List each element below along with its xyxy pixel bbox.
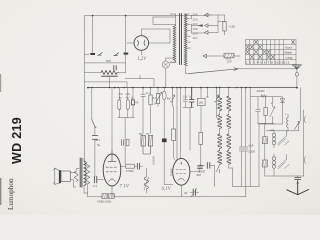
resistor R16 — [265, 97, 267, 108]
table X marks — [246, 40, 295, 59]
bus junction dots — [87, 15, 298, 89]
AGC arrow D2 — [214, 88, 218, 106]
switch S3 arrow — [295, 122, 300, 130]
wire: barretter center tap — [109, 76, 111, 87]
svg-text:5000: 5000 — [249, 150, 256, 154]
svg-text:1,2V: 1,2V — [137, 57, 147, 62]
svg-text:110: 110 — [193, 36, 198, 40]
wire: lamp leads — [166, 58, 176, 88]
capacitor C2 500pF — [114, 66, 116, 71]
wire: long vertical x177 — [176, 88, 178, 160]
wire: C16 C17 join — [183, 108, 194, 151]
wire: drop x=125.6 — [125, 16, 127, 73]
wire: IFT2 row link — [220, 148, 229, 150]
wire: selector right bus — [212, 15, 219, 33]
svg-text:1µ: 1µ — [189, 95, 193, 99]
svg-text:S: S — [95, 125, 97, 129]
svg-text:0,5: 0,5 — [153, 96, 157, 100]
transformer T1 primary winding — [173, 26, 176, 61]
svg-text:0,2A: 0,2A — [171, 60, 177, 64]
capacitor C21 — [239, 147, 243, 186]
fuse lamp L1 — [162, 61, 169, 68]
table row labels — [246, 45, 293, 64]
wire: primary bottom lead — [170, 61, 176, 63]
brand text Lumophon (vertical) — [7, 178, 15, 210]
band unit resistor R17 hatched — [262, 137, 267, 144]
svg-text:7 1V: 7 1V — [120, 185, 130, 190]
electrolytic capacitor C10 — [118, 88, 120, 100]
scan edge artifact lower — [0, 178, 1, 205]
wire: V1 right leads loop — [141, 29, 170, 43]
voltage selector fork 3 — [205, 31, 212, 35]
output transformer T2 core — [80, 158, 82, 187]
V3 anode dot — [180, 163, 182, 165]
wire: speaker to transformer — [70, 169, 79, 188]
svg-text:20000: 20000 — [257, 89, 265, 93]
component value labels — [93, 89, 287, 204]
output transformer T2 winding — [84, 161, 86, 186]
IFT1 secondary left winding — [218, 115, 222, 129]
V3 filament — [178, 179, 185, 181]
electrolytic capacitor C11 — [127, 88, 129, 100]
svg-text:WD 219: WD 219 — [10, 117, 24, 164]
svg-text:1µ: 1µ — [131, 96, 135, 100]
V2 anode — [108, 154, 116, 161]
svg-text:Lang: Lang — [286, 55, 293, 59]
svg-text:0,5MΩ: 0,5MΩ — [152, 155, 156, 165]
svg-text:Lumophon: Lumophon — [7, 178, 15, 210]
resistor box R13 with value — [200, 88, 202, 99]
plug pin P1 — [90, 53, 95, 55]
svg-text:400: 400 — [196, 173, 201, 177]
IF transformer IFT1 primary left winding — [219, 88, 221, 97]
svg-text:4µ: 4µ — [119, 96, 123, 100]
wire: sub line y62.9 — [84, 62, 125, 64]
band switch K2 — [278, 160, 289, 169]
svg-text:40: 40 — [184, 191, 188, 195]
bias resistors R20 R21 hatched — [102, 194, 108, 199]
loudspeaker magnet box — [61, 171, 70, 182]
wire: detector bottom — [259, 107, 283, 124]
voltage selector fork 4 — [203, 54, 210, 58]
title text WD 219 (vertical) — [10, 117, 24, 164]
wire: V1 left lead — [127, 42, 134, 44]
wire: bracket y81 — [84, 82, 127, 88]
driver tube V3 envelope — [173, 158, 190, 185]
IF transformer IFT2 primary left winding — [218, 134, 222, 148]
wire: IFT2 bottom leads — [229, 164, 233, 186]
wire: R-drop leads — [218, 15, 225, 35]
svg-text:0,1: 0,1 — [93, 184, 97, 188]
earth capacitor C23 — [295, 177, 301, 179]
coupling box C15 — [173, 106, 175, 129]
wire: lamp chain down — [163, 100, 165, 139]
wire: bracket y78.7 — [125, 75, 154, 88]
capacitor C28 — [122, 140, 124, 146]
svg-text:0,1: 0,1 — [146, 91, 150, 95]
wire: drop to plug pin — [92, 16, 94, 53]
wire: V1 bottom lead — [140, 50, 142, 55]
wire: V2 top lead — [111, 150, 113, 154]
wire: switched branch from bus — [92, 88, 95, 176]
V2 grid dashes — [106, 167, 117, 172]
resistor R-100 (hatched box) — [224, 53, 234, 58]
loudspeaker cone — [55, 168, 59, 184]
svg-text:150: 150 — [198, 100, 203, 104]
svg-text:5µ: 5µ — [97, 143, 101, 147]
IFT1 primary right winding — [228, 88, 230, 97]
svg-text:Netz: Netz — [225, 57, 232, 61]
band switch K1 — [278, 137, 289, 146]
wire: stub at 207.4 — [206, 88, 208, 97]
wire: V3 bottom lead — [180, 185, 182, 197]
wire: drop from bracket to coupling — [124, 118, 126, 164]
wire: barretter leads — [84, 72, 125, 74]
band unit coil stack L3 — [272, 133, 275, 136]
svg-text:150: 150 — [193, 27, 198, 31]
svg-text:125: 125 — [193, 31, 198, 35]
lower mid resistor boxes R23 R24 hatched — [141, 136, 153, 155]
hum resistor R19 zigzag — [74, 171, 78, 181]
screen feed arrow D1 — [170, 88, 174, 106]
capacitor C22 — [244, 147, 248, 197]
V3 grid dashes — [176, 170, 186, 174]
antenna series capacitor — [295, 73, 298, 76]
switch contact F2 — [98, 53, 103, 56]
svg-text:17000: 17000 — [126, 169, 134, 173]
band unit resistor R18 hatched — [262, 160, 267, 167]
voltage selector fork 2 — [205, 24, 212, 28]
wire: lever to antenna stem — [238, 68, 297, 70]
transformer tap labels — [106, 13, 235, 65]
voltage selector fork 1 — [205, 13, 212, 17]
grid resistor R22 — [126, 164, 135, 168]
svg-text:500: 500 — [106, 59, 111, 63]
wire: T2 leads — [84, 159, 88, 194]
capacitor C17 dark — [189, 88, 194, 108]
capacitor C12 block — [132, 88, 134, 100]
switch lever mains — [190, 68, 239, 74]
svg-text:1W5Ω 160Ω: 1W5Ω 160Ω — [97, 200, 111, 204]
IFT1 secondary right winding — [227, 115, 231, 129]
wire: bottom rail right — [233, 185, 259, 187]
trimmer arrow — [270, 97, 275, 117]
svg-text:240: 240 — [193, 13, 198, 17]
scan edge artifact upper — [0, 74, 1, 92]
barretter resistor R-heat zigzag — [101, 71, 117, 75]
wire: antenna stem — [296, 69, 298, 88]
plug pin P2 — [124, 53, 129, 55]
V1 filament arcs — [138, 41, 146, 46]
wire: tube V2 top lead from bus — [111, 88, 113, 154]
ground symbol earth — [287, 181, 309, 195]
trimmer arcs on x303.5 — [303, 110, 305, 176]
output tube V2 envelope — [103, 154, 121, 186]
coupling capacitor C24 — [95, 176, 97, 183]
wire: R-100 leads — [210, 55, 240, 57]
capacitor C26 right of V3 — [198, 166, 203, 168]
wire: bracket joining C10 C11 C12 — [118, 105, 135, 118]
wire: R13 down to R14 — [200, 106, 202, 133]
detector subline — [250, 96, 282, 98]
band unit coil stack L4 — [272, 157, 275, 160]
svg-text:Kurz: Kurz — [286, 45, 293, 49]
switch S1 — [92, 119, 95, 127]
wire: IFT1 row link — [220, 111, 229, 115]
wire: bottom rail left — [88, 193, 246, 197]
IFT2 secondary left winding — [218, 151, 222, 165]
grid capacitor C25 — [137, 163, 139, 169]
band switch S2 — [217, 164, 220, 173]
rectifier tube V1 envelope — [134, 36, 149, 51]
underline of barretter — [102, 75, 118, 77]
transformer T1 secondary winding — [184, 14, 187, 65]
IFT2 secondary right winding — [227, 151, 231, 165]
diode D3 — [280, 97, 284, 107]
wire: secondary bottom to lever pivot — [186, 66, 190, 74]
contact table — [246, 40, 297, 65]
svg-text:0,1: 0,1 — [183, 95, 187, 99]
wire: right verticals from bus — [241, 88, 250, 187]
capacitor C16 — [183, 88, 187, 108]
main bus wire — [88, 87, 297, 89]
wire: vertical x180.4 tube2 anode top — [179, 88, 181, 159]
wire: left mains rail — [84, 16, 87, 165]
capacitor C20 — [256, 97, 261, 124]
svg-text:220: 220 — [193, 17, 198, 21]
svg-text:≈150: ≈150 — [229, 25, 236, 29]
wire: tap lines to forks — [192, 15, 212, 33]
svg-text:1 2 3 4 5 6 7 8 9101112: 1 2 3 4 5 6 7 8 9101112 — [246, 60, 290, 64]
wire: top horizontal supply line — [84, 15, 207, 17]
IFT2 primary right winding — [227, 134, 231, 148]
wire: x259 x263 verticals — [259, 123, 265, 186]
resistor R-drop (box) — [218, 21, 225, 23]
svg-text:200: 200 — [193, 22, 198, 26]
wire: IFT1 to IFT2 — [220, 128, 229, 134]
mains stub — [84, 53, 89, 55]
transformer T1 core — [180, 14, 182, 65]
wire: V2 bottom lead — [111, 186, 113, 197]
svg-text:Mittel: Mittel — [285, 50, 293, 54]
loudspeaker diaphragm bar — [59, 170, 61, 183]
field choke L5 zigzag — [85, 165, 89, 184]
svg-text:5µF: 5µF — [249, 144, 254, 148]
wire: bottom right rail — [265, 175, 304, 177]
tone capacitor C27 — [193, 189, 195, 196]
resistor R15 zigzag — [261, 95, 266, 98]
svg-text:4µ: 4µ — [126, 96, 130, 100]
wire: x300.5 drop from bus — [300, 88, 302, 121]
pilot lamp W — [163, 88, 165, 92]
transformer T1 primary lead section — [153, 14, 176, 26]
svg-text:6,1V: 6,1V — [162, 187, 172, 192]
capacitor C29 box — [126, 139, 129, 146]
wire: selector wiper arrow — [192, 25, 203, 27]
wire: secondary taps — [184, 14, 190, 66]
svg-text:4S: 4S — [135, 101, 139, 105]
switch contact F3 — [114, 53, 119, 56]
capacitor C13 — [141, 88, 146, 134]
wire: V3 right connections — [190, 168, 200, 172]
potentiometer R11 — [157, 88, 159, 94]
capacitor C14 dark — [162, 139, 167, 143]
capacitor C18 5000 — [207, 163, 210, 169]
resistor R10 — [150, 88, 152, 95]
antenna symbol — [292, 65, 301, 70]
svg-text:0,1µF: 0,1µF — [169, 168, 173, 176]
interstage coil L6 — [144, 177, 148, 189]
resistor R14 — [199, 132, 203, 144]
oscillator coil L2 — [287, 118, 289, 128]
V2 filament — [109, 179, 116, 181]
capacitor C1 plates — [92, 135, 98, 139]
wire: oscillator bottom link — [266, 122, 299, 131]
